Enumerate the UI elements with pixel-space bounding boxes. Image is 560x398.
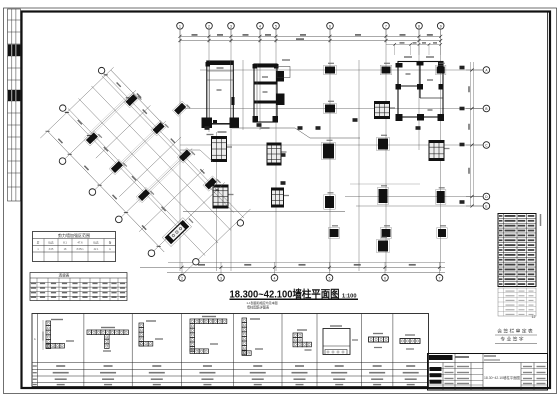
svg-text:3: 3 — [220, 277, 222, 281]
svg-text:标高: 标高 — [48, 241, 54, 245]
wall marks — [205, 66, 465, 204]
column schedule table (bold) — [498, 214, 536, 287]
svg-text:专 业 签 字: 专 业 签 字 — [500, 336, 523, 343]
vertical grid lines — [180, 29, 441, 271]
wall-column detail strip — [32, 305, 429, 387]
detail sketch P6 (step shape) — [293, 329, 312, 350]
columns (orthogonal zone) — [322, 63, 447, 253]
svg-text:42.1: 42.1 — [94, 248, 99, 251]
svg-text:18.30~42.10墙柱平面图: 18.30~42.10墙柱平面图 — [484, 375, 521, 380]
diagonal wing grid — [39, 66, 252, 281]
svg-text:墙柱配筋详图表: 墙柱配筋详图表 — [247, 305, 270, 310]
svg-text:剪力墙加强区范围: 剪力墙加强区范围 — [58, 232, 90, 238]
svg-text:7: 7 — [439, 277, 441, 281]
title block logo bars — [429, 355, 453, 384]
right dimension line — [466, 62, 483, 208]
svg-text:12: 12 — [532, 315, 536, 319]
svg-text:9: 9 — [440, 25, 442, 29]
bottom dimension line — [140, 262, 445, 274]
plan outline segments — [180, 128, 360, 212]
title block — [428, 354, 548, 391]
wing grid bubbles — [59, 67, 243, 265]
svg-text:5: 5 — [275, 25, 277, 29]
top grid bubbles — [177, 23, 444, 30]
svg-text:标高: 标高 — [93, 241, 99, 245]
top dimension lines — [179, 29, 443, 55]
svg-text:3: 3 — [230, 25, 232, 29]
detail sketch P3 (L-shape) — [139, 320, 163, 346]
binder strip block separators — [12, 45, 16, 102]
binder strip filled block 1 — [8, 45, 21, 57]
svg-text:1-1剖面和相应均见本图: 1-1剖面和相应均见本图 — [246, 300, 277, 305]
drawing title — [230, 287, 359, 305]
svg-text:2: 2 — [208, 25, 210, 29]
svg-text:会 签 栏 审 定 表: 会 签 栏 审 定 表 — [497, 328, 533, 335]
svg-text:7: 7 — [385, 25, 387, 29]
svg-text:1:100: 1:100 — [342, 293, 357, 299]
stair core A — [202, 61, 240, 135]
celled wall piers — [212, 102, 450, 209]
detail sketch P7 (box section) — [323, 325, 358, 354]
svg-text:18.300~42.100墙柱平面图: 18.300~42.100墙柱平面图 — [230, 287, 340, 300]
right grid bubbles — [483, 67, 490, 210]
svg-text:8.65m: 8.65m — [77, 248, 84, 251]
side note (vertical) — [540, 214, 542, 226]
svg-text:6: 6 — [384, 277, 386, 281]
lower light table — [498, 288, 536, 319]
horizontal grid lines — [180, 70, 483, 206]
elevator core C — [396, 56, 445, 121]
detail sketch P1 (L-shape) — [42, 319, 74, 350]
svg-text:m: m — [109, 248, 111, 251]
detail sketch P4 (C-shape) — [190, 316, 227, 354]
svg-text:47.6: 47.6 — [77, 241, 83, 245]
detail sketch P8 (rect section) — [369, 333, 389, 348]
binder strip table — [8, 9, 21, 201]
svg-text:4: 4 — [274, 277, 276, 281]
svg-text:5: 5 — [329, 277, 331, 281]
svg-text:8: 8 — [418, 25, 420, 29]
svg-text:连梁表: 连梁表 — [59, 273, 70, 278]
bottom grid bubbles — [179, 275, 443, 282]
detail sketch P9 (rect section) — [400, 334, 420, 349]
detail sketch P2 (T-shape) — [87, 327, 128, 352]
svg-text:2: 2 — [181, 277, 183, 281]
svg-text:E: E — [485, 205, 487, 209]
svg-text:4: 4 — [259, 25, 261, 29]
svg-text:8.1: 8.1 — [63, 241, 67, 245]
svg-text:层: 层 — [37, 241, 40, 245]
detail sketch P5 (tall L) — [242, 318, 263, 355]
title block texts — [445, 355, 546, 384]
svg-text:1: 1 — [179, 25, 181, 29]
wing columns — [76, 71, 251, 246]
svg-text:备: 备 — [109, 241, 112, 245]
svg-text:3.05: 3.05 — [49, 248, 54, 251]
svg-text:6: 6 — [329, 25, 331, 29]
signature stamp — [495, 328, 537, 344]
binder strip filled block 2 — [8, 90, 21, 101]
left table: shear-wall zone — [33, 232, 116, 262]
svg-text:B: B — [485, 107, 487, 111]
stair core B — [253, 59, 291, 128]
left table: coupling beam — [30, 273, 127, 301]
